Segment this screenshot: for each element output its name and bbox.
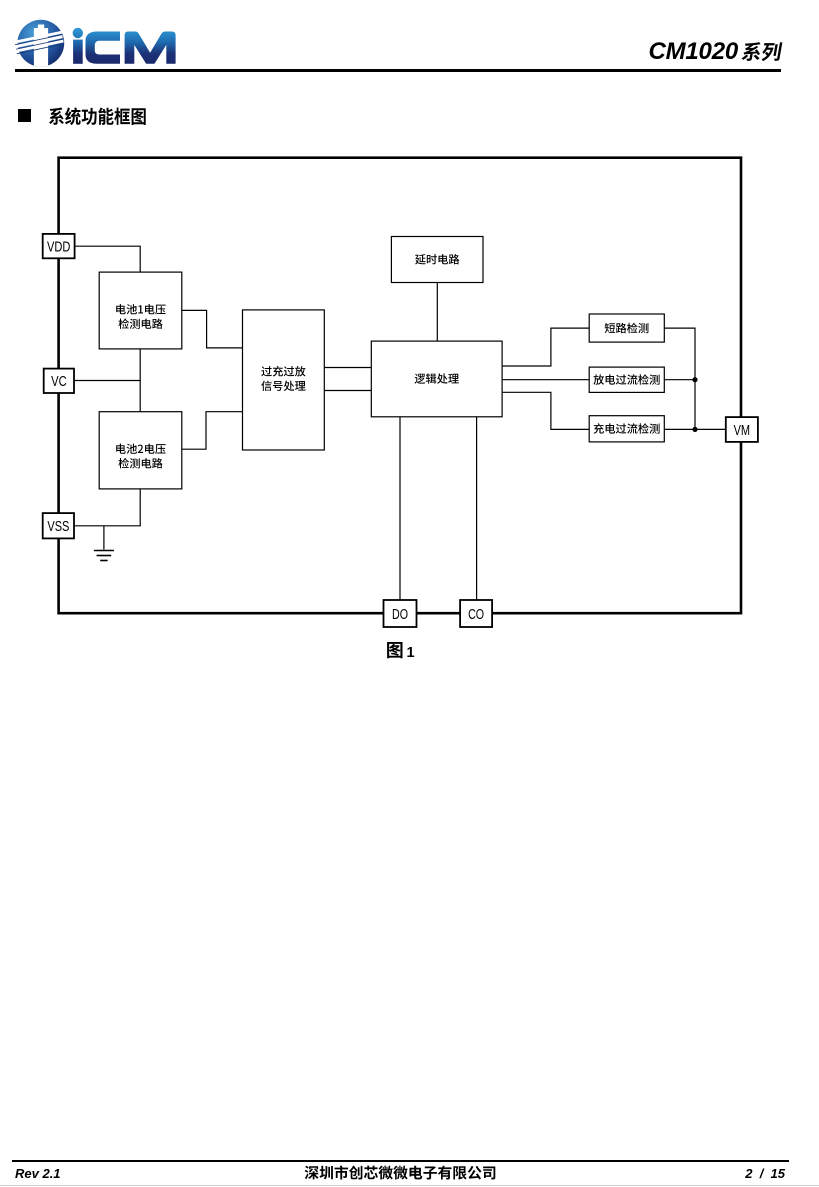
block battery1 voltage detect	[99, 272, 182, 349]
page bottom edge	[0, 1185, 819, 1187]
wire battery2 to signal-proc	[182, 412, 243, 450]
wire discharge-oc to bus	[664, 379, 695, 381]
logo text C	[86, 32, 121, 64]
wire battery2 bottom to VSS line	[74, 489, 140, 526]
ground	[103, 526, 105, 550]
logo stripes	[14, 31, 64, 54]
wire VC to node	[74, 380, 140, 382]
pin VC	[44, 369, 74, 393]
header rule	[15, 69, 781, 72]
logo battery silhouette	[34, 25, 48, 69]
junction dot B	[692, 427, 697, 432]
header 系列	[741, 42, 782, 61]
block discharge overcurrent detect	[589, 367, 664, 392]
section bullet	[18, 109, 32, 123]
block battery2 voltage detect	[99, 412, 182, 489]
block overcharge/overdischarge signal processing	[243, 310, 325, 450]
figure caption 图 1	[387, 642, 402, 658]
wire delay to logic	[436, 283, 438, 342]
wire logic to DO	[399, 417, 401, 600]
junction dot A	[692, 377, 697, 382]
block logic processing	[371, 341, 502, 417]
section title 系统功能框图	[49, 107, 146, 125]
footer company name	[305, 1166, 496, 1180]
logo text i	[73, 28, 83, 38]
pin DO	[384, 600, 417, 627]
logo sphere	[17, 20, 64, 67]
pin CO	[460, 600, 492, 627]
wires signal-proc to logic	[324, 367, 371, 369]
wire logic to CO	[476, 417, 478, 600]
wire battery1 bottom to battery2 top (through VC node)	[139, 349, 141, 412]
block charge overcurrent detect	[589, 416, 664, 442]
wire charge-oc to VM	[664, 428, 726, 430]
wire logic to charge-oc	[502, 392, 589, 429]
wire logic to short-detect	[502, 328, 589, 366]
block short-circuit detect	[589, 314, 664, 342]
footer rule	[12, 1160, 789, 1163]
logo text M	[125, 32, 176, 64]
outer frame	[59, 158, 741, 614]
wire battery1 to signal-proc	[182, 310, 243, 348]
pin VDD	[43, 234, 75, 258]
wire logic to discharge-oc	[502, 379, 589, 381]
pin VSS	[43, 513, 74, 538]
pin VM	[726, 417, 758, 442]
block delay circuit	[391, 237, 483, 283]
wire VDD to battery1	[74, 246, 140, 272]
wire short-detect to bus	[664, 328, 695, 429]
